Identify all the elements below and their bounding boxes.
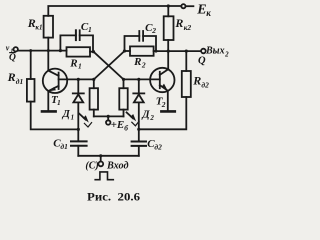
svg-text:R: R — [174, 16, 183, 30]
resistor R2 — [130, 46, 154, 55]
wire Rd2 bottom to Cd2 node — [139, 97, 187, 129]
transistor T2 — [150, 68, 174, 92]
wire cross-coupling diagonal R1 to base T2 — [94, 52, 124, 80]
resistor R1 — [67, 47, 91, 56]
svg-text:2: 2 — [149, 114, 154, 122]
wire input bus — [78, 155, 139, 157]
node Rd1 junction — [29, 49, 32, 52]
node base T1 / bias resistor — [92, 78, 95, 81]
node Rd2 junction — [185, 50, 188, 53]
ground T2 emitter — [161, 110, 174, 113]
terminal +Eb — [107, 116, 109, 120]
node C2 loop right — [155, 50, 158, 53]
wire cross-coupling diagonal R2 to base T1 — [94, 51, 125, 79]
resistor Rk1 — [44, 16, 53, 38]
label Vyh2 — [205, 45, 229, 58]
svg-text:v: v — [6, 44, 10, 53]
label Rd2 — [192, 74, 209, 90]
trigger arrow left — [79, 114, 91, 127]
wire R2 to output Vyh2 — [154, 50, 202, 52]
resistor bias left (to +Eb) — [93, 79, 95, 88]
node base T2 / diode D2 — [137, 78, 140, 81]
svg-text:2: 2 — [151, 26, 156, 35]
svg-text:1: 1 — [78, 62, 82, 71]
svg-text:R: R — [7, 70, 16, 84]
svg-text:R: R — [192, 74, 201, 88]
dash Ek lead — [187, 5, 194, 7]
trigger arrow right — [127, 112, 139, 125]
svg-text:R: R — [133, 56, 141, 68]
label Rd1 — [7, 70, 24, 86]
wire base T2 line — [124, 78, 160, 80]
wire Rk2 top lead — [167, 6, 169, 16]
svg-text:Вход: Вход — [106, 160, 129, 171]
label D2 — [141, 110, 154, 122]
svg-text:к2: к2 — [184, 23, 192, 32]
svg-text:1: 1 — [71, 113, 75, 121]
svg-text:Рис. 20.6: Рис. 20.6 — [87, 192, 140, 204]
svg-text:+E: +E — [111, 119, 125, 131]
capacitor C1 branch — [60, 35, 76, 50]
label Qbar — [9, 53, 16, 63]
resistor Rk2 — [164, 16, 174, 40]
resistor Rd1 — [30, 51, 32, 79]
wire Rk2 bottom to collector T2 — [167, 40, 169, 69]
capacitor C2 branch — [125, 36, 140, 51]
label Rk1 — [27, 16, 43, 32]
svg-text:E: E — [196, 3, 206, 18]
label Cd1 — [53, 137, 68, 151]
svg-text:к: к — [206, 8, 211, 18]
input pulse symbol — [95, 172, 113, 180]
label C2 — [145, 22, 156, 35]
svg-text:2: 2 — [161, 100, 166, 109]
terminal Ek — [181, 4, 185, 8]
terminal Vyh2 — [201, 49, 206, 54]
wire R1 right stub — [90, 51, 94, 53]
wire Rk1 bottom to collector T1 — [47, 38, 49, 71]
wire +Eb bus — [94, 115, 124, 117]
svg-text:к1: к1 — [35, 24, 42, 32]
node base T2 / bias resistor — [122, 78, 125, 81]
label T1 — [51, 94, 61, 107]
node X top-left — [92, 50, 95, 53]
svg-text:б: б — [124, 123, 128, 132]
svg-text:1: 1 — [88, 25, 92, 34]
svg-text:Q: Q — [9, 53, 16, 63]
label +Eb — [111, 119, 129, 133]
diode D2 — [133, 79, 144, 141]
terminal input — [100, 156, 102, 162]
resistor bias right (to +Eb) — [123, 79, 125, 88]
wire T2 emitter — [167, 91, 169, 111]
node D2 / Rd2 / Cd2 — [137, 128, 140, 131]
node D1 / Rd1 / Cd1 — [77, 128, 80, 131]
svg-text:д2: д2 — [154, 142, 162, 151]
svg-text:Д: Д — [62, 109, 71, 120]
svg-text:2: 2 — [141, 60, 146, 69]
node input — [99, 154, 102, 157]
svg-text:1: 1 — [57, 98, 61, 107]
svg-text:д2: д2 — [201, 81, 209, 90]
svg-text:Д: Д — [141, 110, 150, 121]
wire R2 left stub — [125, 50, 131, 52]
label D1 — [62, 109, 75, 121]
label Cd2 — [147, 138, 162, 152]
terminal v1 output — [14, 47, 18, 51]
node Rk2 collector junction — [167, 50, 170, 53]
label T2 — [156, 96, 166, 109]
svg-text:R: R — [69, 57, 77, 69]
ground T1 emitter — [42, 110, 56, 113]
capacitor Cd2 — [132, 142, 146, 156]
label R2 — [133, 56, 146, 69]
svg-text:д1: д1 — [16, 77, 23, 86]
label R1 — [69, 57, 82, 70]
node base T1 / diode D1 — [77, 78, 80, 81]
svg-text:Q: Q — [198, 56, 206, 67]
resistor Rd2 — [185, 51, 187, 71]
svg-text:д1: д1 — [60, 142, 67, 151]
node X top-right — [123, 49, 126, 52]
wire T1 emitter — [47, 91, 49, 110]
transistor T1 — [43, 69, 67, 93]
node C1 loop left junction — [59, 49, 62, 52]
label v1 — [6, 44, 14, 55]
svg-text:Вых: Вых — [205, 45, 225, 56]
label C1 — [81, 21, 92, 34]
wire top supply rail — [48, 6, 181, 16]
svg-text:(С): (С) — [85, 160, 98, 171]
wire v1 line to R1 — [18, 50, 67, 52]
label Rk2 — [174, 16, 191, 32]
wire Rd1 bottom to Cd1 node — [31, 102, 79, 130]
node top rail to Rk2 — [167, 4, 170, 7]
label Ek — [196, 3, 211, 19]
node Rk1 collector junction — [47, 49, 50, 52]
node +Eb — [107, 115, 110, 118]
diode D1 — [73, 79, 84, 141]
svg-text:2: 2 — [224, 50, 229, 58]
capacitor Cd1 — [71, 141, 87, 155]
wire base T1 line — [59, 78, 94, 80]
